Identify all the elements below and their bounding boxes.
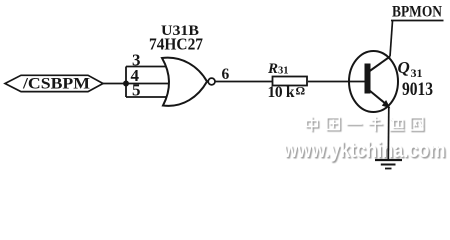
svg-text:31: 31 xyxy=(278,66,289,77)
resistor R31 box xyxy=(273,77,308,86)
node /CSBPM flag xyxy=(5,75,103,91)
transistor Q31 collector diagonal xyxy=(369,57,390,72)
gate output bubble xyxy=(208,78,215,85)
svg-text:R: R xyxy=(267,61,278,77)
NOR gate U31B body xyxy=(162,58,207,106)
svg-text:/CSBPM: /CSBPM xyxy=(22,75,90,92)
wire collector to BPMON xyxy=(390,21,393,57)
svg-text:Q: Q xyxy=(398,58,410,77)
transistor Q31 emitter arrowhead xyxy=(382,100,391,108)
svg-text:74HC27: 74HC27 xyxy=(149,35,203,54)
junction dot xyxy=(123,81,129,87)
wire R31 to Q31 base xyxy=(308,81,365,83)
svg-text:BPMON: BPMON xyxy=(392,4,442,21)
wire pin 4 xyxy=(126,83,170,85)
svg-text:31: 31 xyxy=(411,66,423,80)
transistor Q31 base bar xyxy=(365,64,371,94)
ground symbol xyxy=(375,159,402,161)
node BPMON underline xyxy=(391,20,444,22)
svg-text:www.yktchina.com: www.yktchina.com xyxy=(283,138,446,162)
svg-text:6: 6 xyxy=(222,66,230,83)
wire pin 3 xyxy=(126,66,170,68)
wire emitter to ground xyxy=(387,107,390,160)
watermark text 中国一卡通网 embossed xyxy=(306,117,424,133)
transistor Q31 emitter diagonal xyxy=(370,91,387,105)
svg-text:5: 5 xyxy=(132,81,141,100)
wire pin 5 xyxy=(126,96,170,98)
wire flag to junction xyxy=(103,83,126,85)
wire vertical input bus xyxy=(125,67,127,98)
transistor Q31 circle xyxy=(349,51,398,112)
svg-text:10 k: 10 k xyxy=(268,84,295,101)
svg-text:9013: 9013 xyxy=(402,79,433,100)
wire gate output to R31 xyxy=(215,81,273,83)
svg-text:Ω: Ω xyxy=(296,84,306,98)
